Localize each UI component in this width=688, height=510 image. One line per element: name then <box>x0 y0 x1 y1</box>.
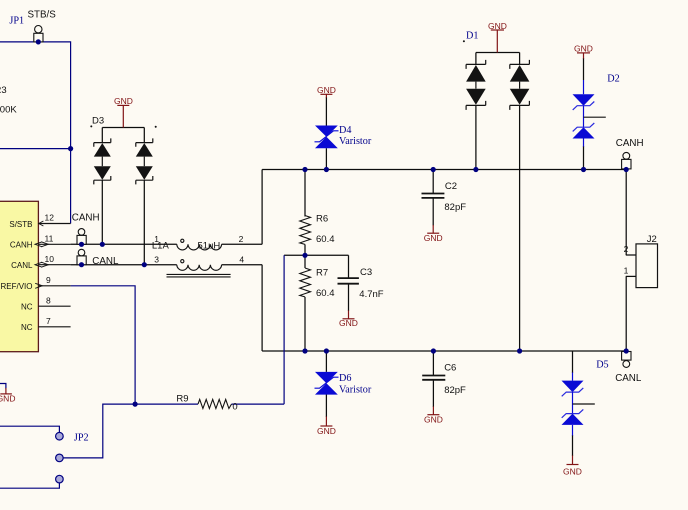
svg-text:NC: NC <box>21 303 33 312</box>
svg-text:D6: D6 <box>339 373 351 384</box>
svg-text:GND: GND <box>114 96 133 106</box>
svg-text:S/STB: S/STB <box>9 220 32 229</box>
svg-text:R3: R3 <box>0 85 7 96</box>
svg-text:D2: D2 <box>607 73 619 84</box>
svg-text:D1: D1 <box>466 31 478 42</box>
svg-text:JP1: JP1 <box>9 16 24 27</box>
svg-text:Varistor: Varistor <box>339 136 372 147</box>
svg-text:GND: GND <box>0 394 15 404</box>
svg-text:CANL: CANL <box>92 256 119 267</box>
svg-text:82pF: 82pF <box>444 385 466 396</box>
svg-text:11: 11 <box>45 234 54 244</box>
svg-text:D5: D5 <box>596 359 608 370</box>
svg-text:8: 8 <box>46 295 51 305</box>
svg-text:JP2: JP2 <box>74 432 89 443</box>
svg-text:10: 10 <box>45 254 55 264</box>
svg-text:0: 0 <box>232 402 237 413</box>
svg-text:C2: C2 <box>445 181 457 192</box>
svg-text:R9: R9 <box>176 393 188 404</box>
svg-text:C6: C6 <box>444 362 456 373</box>
svg-text:1: 1 <box>624 265 629 275</box>
svg-text:3: 3 <box>154 254 159 264</box>
svg-text:60.4: 60.4 <box>316 288 335 299</box>
svg-text:4: 4 <box>239 254 244 264</box>
svg-text:1: 1 <box>154 234 159 244</box>
svg-text:CANL: CANL <box>615 373 642 384</box>
svg-text:GND: GND <box>574 44 593 54</box>
svg-text:82pF: 82pF <box>444 202 466 213</box>
svg-text:GND: GND <box>424 414 443 424</box>
svg-text:D4: D4 <box>339 125 351 136</box>
svg-text:GND: GND <box>317 426 336 436</box>
svg-text:CANH: CANH <box>10 241 33 250</box>
svg-text:R7: R7 <box>316 267 328 278</box>
svg-text:NC: NC <box>21 323 33 332</box>
svg-text:GND: GND <box>424 233 443 243</box>
svg-text:STB/S: STB/S <box>28 10 57 21</box>
svg-text:2: 2 <box>239 234 244 244</box>
svg-text:GND: GND <box>563 467 582 477</box>
svg-text:Varistor: Varistor <box>339 384 372 395</box>
svg-text:CANH: CANH <box>616 138 644 149</box>
svg-text:2: 2 <box>624 244 629 254</box>
svg-text:4.7nF: 4.7nF <box>359 289 383 300</box>
svg-text:12: 12 <box>45 213 55 223</box>
svg-text:60.4: 60.4 <box>316 234 335 245</box>
svg-text:GND: GND <box>339 318 358 328</box>
svg-text:CANL: CANL <box>11 261 33 270</box>
svg-text:CANH: CANH <box>72 213 100 224</box>
svg-text:GND: GND <box>317 85 336 95</box>
svg-text:R6: R6 <box>316 214 328 225</box>
svg-text:9: 9 <box>46 275 51 285</box>
svg-text:7: 7 <box>46 316 51 326</box>
svg-text:D3: D3 <box>92 116 104 127</box>
svg-text:GND: GND <box>488 21 507 31</box>
svg-text:REF/VIO: REF/VIO <box>0 282 32 291</box>
svg-text:C3: C3 <box>360 267 372 278</box>
svg-text:100K: 100K <box>0 105 17 116</box>
